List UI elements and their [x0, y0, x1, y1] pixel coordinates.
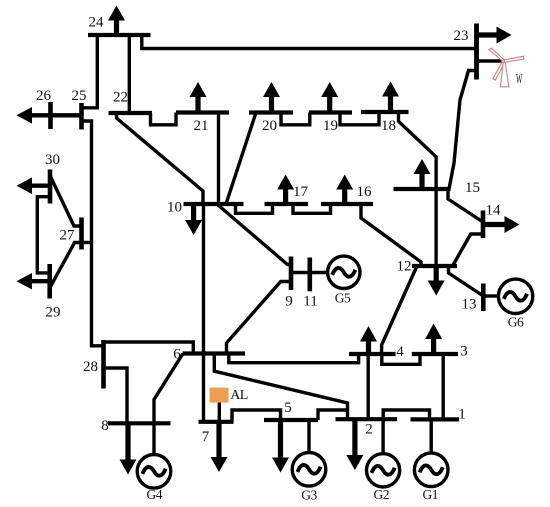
wire 25-27 — [82, 121, 104, 346]
svg-text:AL: AL — [230, 388, 248, 403]
load arrow bus 19 — [321, 82, 338, 113]
generator G3 wire — [307, 420, 310, 453]
generator G1 wire — [430, 419, 433, 453]
load arrow bus 23 — [477, 27, 512, 44]
bus 13 — [481, 284, 486, 312]
AL orange square — [210, 388, 229, 403]
load arrow bus 21 — [190, 82, 207, 113]
svg-text:23: 23 — [454, 28, 469, 44]
svg-text:2: 2 — [365, 422, 373, 438]
svg-text:16: 16 — [357, 184, 373, 200]
wire 24-25 — [82, 35, 98, 108]
bus 24 — [88, 33, 151, 37]
wire 16-12 — [361, 204, 421, 266]
bus 17 — [265, 202, 309, 206]
bus 28 — [101, 340, 106, 389]
AL connector wire — [218, 402, 221, 422]
load arrow bus 3 — [425, 324, 442, 355]
load arrow bus 10 — [185, 204, 202, 235]
bus 26 — [48, 102, 53, 129]
bus 30 — [48, 170, 53, 204]
svg-text:8: 8 — [101, 418, 109, 434]
bus 22 — [109, 111, 153, 115]
wire 28-8 — [104, 368, 128, 423]
wire 23 to wind turbine — [477, 59, 502, 62]
load arrow bus 17 — [277, 175, 294, 205]
svg-text:G2: G2 — [374, 487, 390, 502]
bus 2 — [336, 417, 398, 421]
svg-text:15: 15 — [465, 180, 480, 196]
wire 10-17 — [236, 204, 273, 213]
wire 15-14 — [448, 189, 483, 222]
bus 7 — [199, 420, 234, 424]
load arrow bus 12 — [428, 266, 445, 296]
wire 3-1 — [442, 354, 445, 419]
svg-text:29: 29 — [46, 305, 61, 321]
wire 10-9 — [218, 205, 291, 265]
wire 17-16 — [293, 204, 331, 213]
load arrow bus 2 — [346, 419, 363, 470]
wire 9-11 to G5 — [291, 271, 327, 274]
bus 1 — [411, 417, 460, 421]
svg-text:12: 12 — [397, 259, 412, 275]
generator G5 — [328, 256, 360, 288]
wire 5-2 — [318, 410, 348, 420]
svg-text:25: 25 — [72, 88, 87, 104]
wire 10-6-7 — [202, 204, 205, 422]
svg-text:30: 30 — [45, 152, 60, 168]
wire 21-10 — [217, 113, 220, 205]
bus 5 — [264, 418, 318, 422]
bus 10 — [184, 202, 244, 206]
load arrow bus 29 — [17, 273, 50, 290]
bus 21 — [176, 110, 229, 114]
wire 9-6 — [227, 282, 292, 354]
bus 9 — [289, 257, 294, 291]
generator G3 — [292, 453, 326, 487]
generator G2 wire — [381, 419, 384, 453]
svg-text:18: 18 — [381, 118, 396, 134]
wire 30-29 — [37, 197, 50, 273]
bus 27 — [79, 218, 84, 250]
svg-text:1: 1 — [458, 407, 466, 423]
svg-text:26: 26 — [36, 88, 52, 104]
svg-text:G1: G1 — [423, 487, 439, 502]
bus 4 — [349, 352, 396, 356]
svg-text:G6: G6 — [508, 315, 524, 330]
svg-text:19: 19 — [323, 118, 338, 134]
bus 23 — [474, 24, 479, 80]
wire 28-6 — [104, 342, 194, 354]
svg-text:7: 7 — [202, 429, 210, 445]
bus 16 — [321, 202, 373, 206]
svg-text:27: 27 — [60, 228, 76, 244]
generator G6 wire — [483, 294, 499, 297]
wire 30-27 — [50, 176, 82, 227]
wire 18-15-12 — [399, 112, 437, 266]
bus 8 — [108, 421, 171, 425]
svg-text:5: 5 — [284, 400, 292, 416]
generator G4 — [137, 455, 171, 489]
svg-text:24: 24 — [89, 15, 105, 31]
bus 14 — [481, 211, 486, 239]
wire 22-10 — [117, 113, 204, 204]
load arrow bus 30 — [17, 177, 51, 194]
wire 20-19 — [281, 113, 310, 125]
load arrow bus 7 — [211, 422, 228, 472]
svg-text:G3: G3 — [301, 488, 317, 503]
wire 7-5 — [232, 410, 281, 422]
svg-text:28: 28 — [83, 359, 98, 375]
wire 20-10 — [226, 113, 256, 205]
generator G1 — [414, 453, 448, 487]
generator G6 — [498, 279, 532, 313]
load arrow bus 24 — [108, 6, 125, 36]
wire 24-23 — [142, 35, 477, 49]
wire 2-1 — [383, 410, 429, 419]
wire 23-15 — [449, 71, 477, 190]
bus 15 — [394, 187, 451, 191]
load arrow bus 16 — [336, 175, 353, 205]
wire 12-13 — [449, 266, 484, 296]
load arrow bus 18 — [382, 82, 399, 113]
bus 3 — [412, 352, 458, 356]
wire 27-29 — [50, 243, 82, 289]
wire 19-18 — [340, 112, 379, 125]
svg-text:13: 13 — [462, 297, 477, 313]
wire 6-8 to G4 — [154, 354, 183, 455]
bus 19 — [309, 110, 352, 114]
load arrow bus 4 — [360, 326, 377, 354]
load arrow bus 8 — [120, 423, 137, 474]
wire 27 to 25-28 vertical — [82, 241, 92, 244]
load arrow bus 15 — [414, 159, 431, 189]
wind turbine W — [489, 48, 524, 87]
svg-text:3: 3 — [460, 344, 468, 360]
svg-text:9: 9 — [285, 294, 293, 310]
wire 6-2 — [214, 354, 347, 420]
svg-text:4: 4 — [396, 344, 404, 360]
bus 20 — [249, 110, 293, 114]
svg-text:10: 10 — [167, 200, 182, 216]
wire 14-12 — [453, 234, 484, 266]
bus 18 — [361, 110, 409, 114]
wire 12-4 — [382, 266, 417, 354]
svg-text:21: 21 — [194, 118, 209, 134]
bus 12 — [412, 264, 457, 268]
bus 6 — [183, 351, 246, 355]
load arrow bus 14 — [483, 216, 520, 233]
wire 4-3 — [382, 354, 420, 364]
bus 25 — [79, 103, 84, 130]
svg-text:20: 20 — [262, 118, 277, 134]
wire 4-2 — [367, 354, 370, 419]
svg-text:G4: G4 — [147, 487, 163, 502]
svg-text:22: 22 — [113, 90, 128, 106]
svg-text:11: 11 — [303, 294, 317, 310]
wire 24-22 — [128, 35, 131, 113]
bus 29 — [47, 264, 52, 299]
svg-text:14: 14 — [486, 203, 502, 219]
wire 22-21 — [151, 113, 177, 125]
generator G2 — [367, 454, 400, 487]
wire 25-26 and load arrow bus 26 — [17, 107, 82, 124]
svg-text:W: W — [516, 70, 522, 87]
load arrow bus 5 — [272, 420, 289, 473]
wire 6-4 — [229, 354, 359, 363]
svg-text:6: 6 — [173, 347, 181, 363]
svg-text:G5: G5 — [335, 291, 351, 306]
load arrow bus 20 — [263, 82, 280, 113]
bus 11 — [307, 258, 312, 292]
svg-text:17: 17 — [293, 184, 309, 200]
